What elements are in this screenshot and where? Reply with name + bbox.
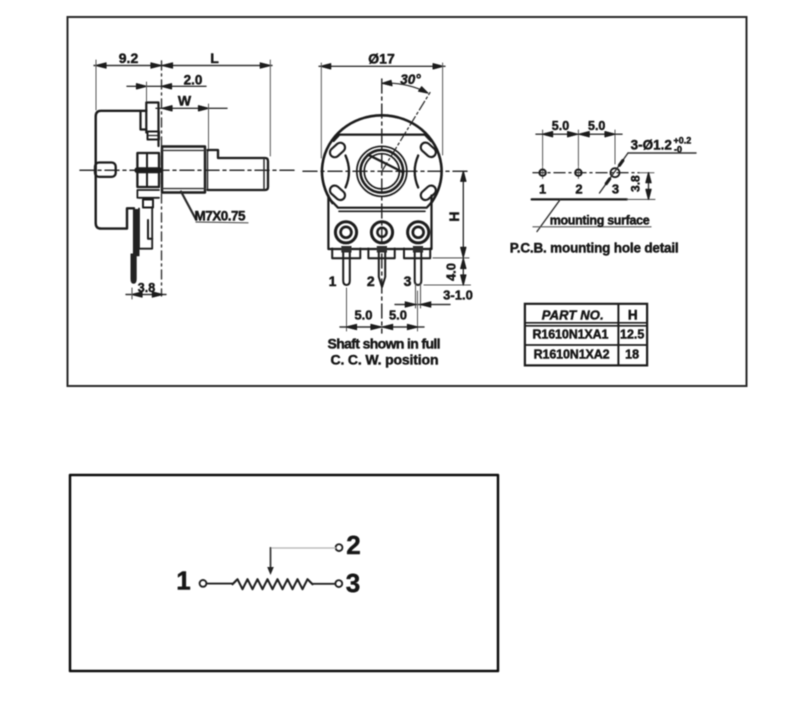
svg-text:5.0: 5.0: [588, 119, 605, 133]
crimp slot upper-left: [328, 141, 347, 159]
30 degree arc with arrows: [382, 83, 428, 93]
crimp slot upper-right: [419, 141, 438, 159]
terminal 1 node: [200, 580, 207, 587]
svg-text:2.0: 2.0: [184, 73, 203, 88]
dimension H: [433, 257, 469, 259]
vertical centerline: [381, 79, 383, 333]
dimension 5.0 5.0 (holes): [542, 130, 544, 166]
hole 3: [611, 168, 620, 177]
centerline (side view axis): [80, 169, 296, 171]
svg-text:mounting surface: mounting surface: [550, 214, 650, 228]
cover plate bottom chord: [332, 201, 433, 207]
cover plate top chord: [334, 135, 432, 142]
svg-text:2: 2: [367, 273, 375, 289]
svg-text:1: 1: [176, 566, 190, 596]
bracket plate: [146, 103, 158, 147]
dimension 2.0: [127, 85, 206, 87]
outline drawing frame (top box): [68, 17, 747, 386]
pin shoulders: [341, 246, 351, 253]
dimension Ø17: [319, 65, 445, 67]
pad 3: [408, 222, 429, 243]
hole 2: [577, 167, 579, 179]
wire terminal 2 to wiper (faint): [271, 547, 336, 549]
svg-text:R1610N1XA1: R1610N1XA1: [533, 328, 609, 342]
label mounting surface: [537, 200, 560, 232]
svg-text:12.5: 12.5: [620, 328, 644, 342]
pad 2: [371, 222, 392, 243]
svg-text:Ø17: Ø17: [368, 51, 395, 67]
dimension 3.8 (hole offset): [639, 172, 654, 174]
svg-text:2: 2: [575, 182, 582, 197]
svg-text:1: 1: [329, 273, 337, 289]
shaft rings: [357, 146, 407, 196]
svg-text:H: H: [628, 308, 638, 323]
wiper stem: [270, 548, 272, 568]
svg-text:2: 2: [346, 530, 360, 560]
svg-text:H: H: [446, 211, 462, 221]
svg-text:1: 1: [539, 182, 546, 197]
terminal block: [328, 196, 431, 250]
terminal 3 node: [335, 580, 342, 587]
pin 3 lead: [415, 253, 422, 286]
svg-text:3-Ø1.2: 3-Ø1.2: [631, 138, 672, 153]
crimp slot lower-right: [419, 184, 438, 202]
dimension 3.8 (leg offset): [126, 294, 166, 296]
solder lug leg (dark): [131, 210, 139, 284]
terminal 2 node: [336, 544, 343, 551]
horizontal centerline: [303, 170, 470, 172]
dimension 9.2 / L dim line: [94, 65, 272, 67]
svg-text:3: 3: [346, 568, 360, 598]
dimension W: [156, 107, 227, 109]
svg-text:3.8: 3.8: [629, 175, 643, 192]
extension line right (shaft end): [269, 60, 271, 156]
small lug box: [143, 200, 153, 208]
wire resistor to terminal 3: [313, 583, 336, 585]
svg-text:C. C. W. position: C. C. W. position: [331, 352, 439, 368]
resistor element R: [233, 579, 313, 589]
holes centerline: [533, 172, 639, 174]
svg-text:P.C.B. mounting hole detail: P.C.B. mounting hole detail: [510, 241, 679, 256]
hub lower tab: [137, 190, 159, 198]
bracket tab at bushing root: [148, 132, 160, 140]
cover outer circle: [322, 115, 442, 203]
label M7X0.75 with leader: [181, 192, 196, 220]
svg-text:5.0: 5.0: [354, 308, 372, 323]
table frame: [525, 304, 647, 366]
wire terminal1 to resistor: [207, 583, 233, 585]
svg-text:W: W: [178, 93, 192, 109]
bearing hub: [137, 153, 159, 187]
svg-text:R1610N1XA2: R1610N1XA2: [534, 348, 610, 362]
svg-text:18: 18: [625, 348, 639, 362]
hole 1: [542, 167, 544, 179]
crimp slot lower-left: [328, 184, 347, 202]
30 degree indicator line: [382, 93, 430, 172]
pad 1: [335, 222, 356, 243]
pin 2 lead (pointed): [379, 253, 385, 288]
svg-text:3: 3: [404, 273, 412, 289]
left ear arc: [346, 156, 350, 188]
shaft flat chord: [368, 155, 403, 173]
shaft root line: [207, 151, 209, 190]
mounting surface line: [532, 198, 627, 200]
bracket fold tab (top): [141, 111, 147, 130]
threaded bushing M7: [162, 147, 205, 193]
wiper arrow: [267, 567, 274, 575]
svg-text:9.2: 9.2: [119, 50, 139, 66]
pin 1 lead: [343, 253, 350, 286]
svg-text:3.8: 3.8: [138, 281, 155, 295]
svg-text:5.0: 5.0: [552, 119, 569, 133]
svg-text:5.0: 5.0: [389, 308, 407, 323]
svg-text:M7X0.75: M7X0.75: [195, 209, 246, 224]
bracket lower leg plate: [139, 207, 152, 249]
svg-text:30°: 30°: [400, 72, 421, 87]
potentiometer body (side): [96, 111, 147, 229]
right ear arc: [415, 156, 419, 188]
extension line left: [95, 60, 97, 110]
svg-text:4.0: 4.0: [444, 263, 459, 281]
svg-text:3: 3: [612, 182, 619, 197]
dimension 3-1.0: [415, 284, 417, 308]
body locating tab (left): [95, 163, 116, 177]
svg-text:L: L: [210, 50, 219, 66]
mounting plane dash-dot line: [161, 61, 163, 296]
shaft with flat: [208, 150, 269, 190]
svg-text:Shaft shown in full: Shaft shown in full: [328, 336, 441, 352]
svg-text:PART NO.: PART NO.: [542, 308, 604, 323]
svg-text:3-1.0: 3-1.0: [443, 288, 473, 303]
block feet: [332, 249, 360, 259]
schematic frame (bottom box): [70, 475, 498, 671]
dimension 5.0 5.0 (pins): [346, 288, 348, 331]
